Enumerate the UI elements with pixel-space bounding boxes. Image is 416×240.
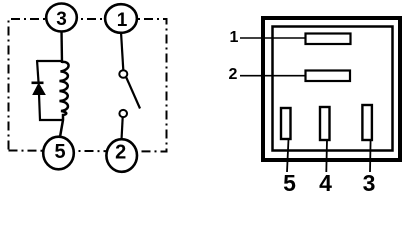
pin 2 slot xyxy=(306,71,351,82)
wire: diode branch vertical bottom xyxy=(39,94,63,120)
diode (cathode bar) xyxy=(32,82,44,85)
terminal 2 xyxy=(106,139,137,172)
switch arm (open) xyxy=(126,78,140,109)
terminal 5 xyxy=(43,137,74,170)
leader line for pin 4 xyxy=(325,140,328,172)
switch lower contact xyxy=(119,110,127,117)
diode (anode triangle pointing up) xyxy=(33,84,45,95)
svg-text:1: 1 xyxy=(117,10,128,31)
svg-text:3: 3 xyxy=(56,9,67,30)
svg-text:4: 4 xyxy=(319,170,332,196)
svg-text:5: 5 xyxy=(283,170,296,196)
wire: terminal 3 to coil top xyxy=(60,30,63,63)
leader line for pin 2 xyxy=(240,75,306,77)
svg-text:2: 2 xyxy=(115,142,126,164)
svg-text:3: 3 xyxy=(363,170,376,196)
svg-text:2: 2 xyxy=(229,66,238,83)
leader line for pin 5 xyxy=(287,139,289,172)
terminal 3 xyxy=(46,4,77,32)
terminal 1 xyxy=(105,4,137,33)
wire: diode branch vertical top xyxy=(37,60,39,82)
pin 1 slot xyxy=(306,34,351,45)
connector inner face xyxy=(273,27,393,151)
relay coil xyxy=(60,62,69,137)
wire: terminal 1 to upper contact xyxy=(121,32,123,70)
wire: coil top junction to diode branch xyxy=(37,60,62,62)
wire: lower contact to terminal 2 xyxy=(122,117,123,140)
leader line for pin 1 xyxy=(240,37,306,39)
pin 5 slot xyxy=(281,108,291,139)
svg-text:5: 5 xyxy=(54,141,65,163)
connector outer body xyxy=(263,18,400,160)
svg-text:1: 1 xyxy=(230,29,239,46)
pin 3 slot xyxy=(362,105,372,140)
switch upper contact xyxy=(119,70,127,78)
pin 4 slot xyxy=(320,107,330,140)
leader line for pin 3 xyxy=(369,140,372,172)
relay dashed enclosure (dash-dot border) xyxy=(9,19,167,152)
